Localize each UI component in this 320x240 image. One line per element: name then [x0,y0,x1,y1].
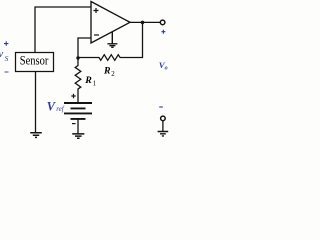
svg-text:R: R [103,66,111,77]
svg-text:ref: ref [56,105,65,113]
wire: negative terminal to ground [162,121,164,132]
ground (battery) [72,134,84,138]
ground (sensor branch) [30,133,42,138]
svg-text:o: o [165,66,168,72]
wire: inverting input left and down to junction node [78,38,91,58]
battery Vref [64,103,92,134]
resistor R1 [75,58,81,103]
node: output junction [141,21,145,25]
label + (output) [161,30,165,34]
label vs minus sign [5,71,9,73]
battery Vref plus sign [71,94,75,98]
wire: sensor top up and right to op-amp non-inverting input [35,7,91,53]
wire: op-amp output to + terminal [130,21,160,23]
wire: sensor bottom to ground [35,72,37,133]
label Vref [47,100,65,114]
label R2 [103,66,115,78]
label R1 [84,75,96,87]
battery Vref minus sign [72,123,76,125]
resistor R2 [78,55,120,61]
ground (output) [158,132,169,136]
label Vo [159,60,168,72]
svg-text:V: V [47,100,57,114]
wire: feedback from output node down and left to R2 [120,22,143,57]
svg-text:Sensor: Sensor [20,54,49,68]
label − (output) [159,106,163,108]
node: junction of R1, R2 and inverting input [76,56,79,59]
ground (op-amp) [107,32,117,47]
svg-text:1: 1 [93,79,97,87]
label vs plus sign [4,41,8,45]
terminal: output positive [160,20,165,25]
svg-text:S: S [5,54,9,63]
sensor block [16,53,54,72]
svg-text:R: R [84,75,92,86]
svg-text:2: 2 [111,70,115,78]
svg-text:v: v [0,49,4,60]
op-amp U1 [91,2,130,44]
terminal: output negative [161,116,166,121]
